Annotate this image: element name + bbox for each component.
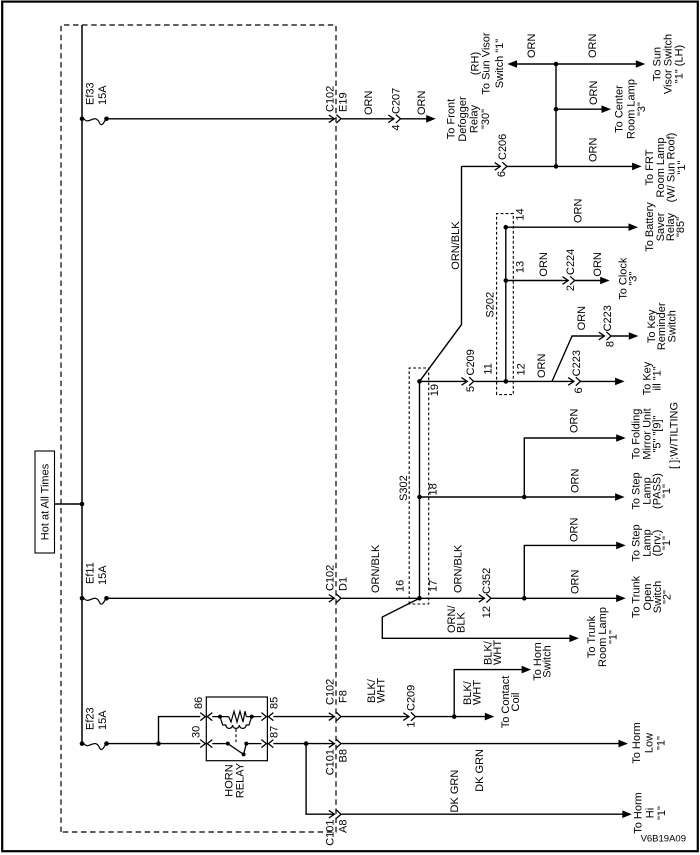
wire: BLK/WHT to contact coil: [416, 716, 487, 718]
relay actuator dashed link: [235, 729, 237, 742]
svg-text:6: 6: [573, 387, 585, 393]
svg-text:12: 12: [516, 363, 528, 375]
arrow to Contact Coil: [485, 713, 495, 721]
label To Horm Hi 1: [633, 792, 669, 834]
svg-text:Ef23: Ef23: [85, 707, 97, 730]
svg-text:"30": "30": [480, 109, 492, 129]
svg-text:"5" "[9]": "5" "[9]": [652, 415, 664, 452]
junction: center room lamp tap: [554, 107, 559, 112]
svg-text:ORN: ORN: [576, 306, 588, 331]
svg-text:"2": "2": [662, 590, 674, 604]
label To Horm Low 1: [631, 722, 668, 764]
connector C223 pin 8: [599, 332, 611, 340]
svg-text:6: 6: [496, 171, 508, 177]
junction: S302 pin 16/17: [417, 596, 422, 601]
wire: DK GRN to horn low: [342, 743, 621, 745]
svg-text:Coil: Coil: [510, 693, 522, 712]
fuse Ef23 15A: [80, 741, 109, 749]
svg-text:S202: S202: [485, 292, 497, 318]
svg-text:C102: C102: [325, 86, 337, 112]
wire: Ef11 to C102 D1: [107, 597, 330, 599]
svg-text:Hot at All Times: Hot at All Times: [40, 463, 52, 540]
label To FRT Room Lamp: [644, 133, 688, 203]
svg-text:ORN: ORN: [569, 409, 581, 434]
arrow to FRT Room Lamp: [632, 163, 642, 171]
relay switch contact: [212, 744, 261, 755]
wire: ORN to C224: [506, 280, 563, 282]
svg-text:15A: 15A: [97, 565, 109, 585]
wire: to C101 A8: [306, 744, 329, 815]
label To Contact Coil: [500, 676, 522, 729]
wire: ORN sun visor RH-LH: [514, 63, 637, 65]
junction: S202 pin 12: [504, 379, 509, 384]
wire: ORN to trunk open switch: [491, 597, 617, 599]
connector C207 pin 4: [388, 115, 400, 123]
label To Battery Saver Relay 85: [644, 202, 687, 252]
svg-text:86: 86: [193, 697, 205, 709]
connector C102 pin F8: [329, 712, 341, 720]
arrow to Front Defogger Relay: [426, 115, 436, 123]
svg-text:19: 19: [429, 384, 441, 396]
svg-text:ORN: ORN: [536, 354, 548, 379]
wire: ORN to FRT room lamp: [507, 165, 634, 167]
relay terminal 30: [200, 740, 212, 748]
svg-text:ORN/BLK: ORN/BLK: [450, 221, 462, 270]
label To Step Lamp PASS 1: [631, 472, 674, 509]
svg-text:"1" (LH): "1" (LH): [674, 45, 686, 83]
svg-text:E19: E19: [338, 92, 350, 112]
svg-text:Switch: Switch: [542, 645, 554, 677]
wire: ORN to step lamp Drv: [524, 545, 617, 598]
junction: relay coil tap: [156, 741, 161, 746]
wire: ORN to clock: [575, 280, 602, 282]
junction: horn switch tap: [452, 714, 457, 719]
splice S202 dashed box: [497, 214, 514, 395]
svg-text:C209: C209: [465, 349, 477, 375]
label To Sun Visor Switch RH: [470, 32, 507, 95]
svg-text:"85": "85": [675, 217, 687, 237]
arrow to Center Room Lamp: [602, 105, 612, 113]
svg-text:ORN: ORN: [538, 252, 550, 277]
svg-text:85: 85: [269, 697, 281, 709]
svg-text:"1": "1": [661, 536, 673, 550]
svg-text:18: 18: [428, 483, 440, 495]
splice S302 dashed box: [409, 368, 429, 604]
svg-text:Defogger: Defogger: [457, 96, 469, 142]
svg-text:C102: C102: [325, 679, 337, 705]
wire: to C206: [462, 165, 495, 167]
svg-text:17: 17: [428, 580, 440, 592]
svg-text:Ef33: Ef33: [85, 82, 97, 105]
svg-text:C209: C209: [406, 685, 418, 711]
connector C101 pin A8: [329, 810, 341, 818]
svg-text:"1": "1": [608, 630, 620, 644]
junction: S202 pin 13: [504, 278, 509, 283]
svg-text:WHT: WHT: [492, 640, 504, 665]
wire: ORN to folding mirror unit: [524, 438, 617, 497]
svg-text:ORN: ORN: [526, 34, 538, 59]
connector C206 pin 6: [495, 162, 507, 170]
svg-text:[ ]:W/TILTING: [ ]:W/TILTING: [669, 402, 681, 469]
svg-text:2: 2: [565, 285, 577, 291]
junction: S302 pin 18: [417, 495, 422, 500]
connector C209 pin 5/11: [462, 377, 474, 385]
svg-text:ORN: ORN: [592, 252, 604, 277]
wire: ORN to C223 pin 6: [506, 380, 569, 382]
arrow to Trunk Open Switch: [616, 595, 626, 603]
svg-text:16: 16: [395, 580, 407, 592]
svg-text:B8: B8: [338, 749, 350, 762]
switch pivot: [242, 752, 246, 756]
svg-text:1: 1: [406, 722, 418, 728]
switch fixed contact: [226, 742, 230, 746]
connector C102 pin E19: [329, 115, 341, 123]
wire: ORN to key reminder via C223 pin 8: [552, 336, 599, 381]
wire: to horn relay 86: [159, 717, 201, 744]
svg-text:ORN: ORN: [570, 469, 582, 494]
svg-text:ORN: ORN: [363, 91, 375, 116]
label To Sun Visor Switch LH: [652, 34, 686, 94]
svg-text:C352: C352: [481, 568, 493, 594]
wire: ORN to battery saver relay: [506, 226, 630, 228]
svg-text:Hi: Hi: [645, 808, 657, 818]
svg-text:DK GRN: DK GRN: [474, 749, 486, 792]
fuse Ef11 15A: [80, 596, 109, 604]
junction: stem on bus: [80, 502, 85, 507]
svg-text:14: 14: [515, 208, 527, 220]
svg-text:C102: C102: [325, 565, 337, 591]
svg-text:WHT: WHT: [472, 680, 484, 705]
svg-text:Relay: Relay: [469, 104, 481, 133]
svg-text:BLK: BLK: [455, 612, 467, 633]
svg-text:ORN: ORN: [588, 81, 600, 106]
svg-text:87: 87: [269, 726, 281, 738]
junction: S302 pin 19: [417, 379, 422, 384]
wire: to key reminder switch: [611, 335, 630, 337]
wire: relay 87 to C101 B8: [273, 743, 329, 745]
fuse block dashed enclosure: [61, 25, 336, 832]
label To Horn Switch: [532, 642, 554, 681]
svg-text:"1": "1": [656, 736, 668, 750]
svg-text:To Horm: To Horm: [633, 792, 645, 834]
connector C223 pin 6: [568, 377, 580, 385]
svg-text:ORN/BLK: ORN/BLK: [370, 544, 382, 593]
svg-text:To Trunk: To Trunk: [631, 575, 643, 618]
svg-text:To Sun Visor: To Sun Visor: [481, 32, 493, 95]
label To Clock 3: [618, 257, 640, 300]
wire: ORN to center room lamp: [556, 108, 603, 110]
connector C224 pin 2: [563, 276, 575, 284]
arrow to Horn Hi: [622, 810, 632, 818]
svg-text:C223: C223: [571, 350, 583, 376]
wire: S202 splice bus: [505, 227, 507, 381]
connector C102 pin D1: [329, 594, 341, 602]
svg-text:ORN: ORN: [569, 518, 581, 543]
wire: ORN/BLK to trunk room lamp: [382, 598, 570, 638]
svg-text:To Horm: To Horm: [631, 722, 643, 764]
wire: Ef33 to C102 E19: [107, 118, 330, 120]
svg-text:ORN: ORN: [416, 91, 428, 116]
connector C352 pin 12: [479, 594, 491, 602]
label To Trunk Open Switch 2: [631, 575, 674, 618]
connector C209 pin 1: [403, 712, 415, 720]
junction: step lamp Drv tap: [522, 596, 527, 601]
svg-text:"1": "1": [656, 806, 668, 820]
svg-text:C223: C223: [602, 305, 614, 331]
svg-text:30: 30: [191, 726, 203, 738]
label box Hot at All Times: [35, 451, 55, 553]
svg-text:DK GRN: DK GRN: [449, 770, 461, 813]
svg-text:ill "1": ill "1": [652, 366, 664, 390]
label To Key ill 1: [642, 361, 664, 395]
svg-text:Ef11: Ef11: [85, 562, 97, 584]
relay coil: [212, 711, 261, 728]
switch output contact: [244, 742, 248, 746]
label To Step Lamp Drv 1: [631, 524, 674, 561]
junction: coil top: [218, 715, 222, 719]
relay terminal 87: [261, 740, 273, 748]
svg-text:4: 4: [391, 125, 403, 131]
wire: ORN to C207: [342, 118, 389, 120]
label To Folding Mirror Unit: [631, 408, 664, 459]
svg-text:13: 13: [515, 261, 527, 273]
relay terminal 85: [261, 713, 273, 721]
wire: relay 85 to C102 F8: [273, 716, 329, 718]
junction: S202 pin 14: [504, 225, 509, 230]
wire: feed to sun visor branch: [555, 64, 557, 166]
wire: ORN to front defogger relay: [401, 118, 427, 120]
svg-text:C101: C101: [325, 749, 337, 775]
svg-text:ORN: ORN: [570, 570, 582, 595]
junction: sun visor wire: [554, 62, 559, 67]
svg-text:C101: C101: [325, 820, 337, 846]
svg-text:ORN: ORN: [573, 199, 585, 224]
svg-text:5: 5: [465, 386, 477, 392]
svg-text:A8: A8: [338, 820, 350, 833]
fuse Ef33 15A: [80, 117, 109, 125]
svg-text:Switch: Switch: [666, 310, 678, 342]
relay terminal 86: [200, 713, 212, 721]
svg-text:C206: C206: [497, 134, 509, 160]
label To Center Room Lamp 3: [614, 79, 649, 139]
wire: S302 splice bus: [419, 381, 421, 598]
svg-text:ORN: ORN: [588, 138, 600, 163]
svg-text:F8: F8: [338, 690, 350, 703]
arrow to Folding Mirror Unit: [616, 434, 626, 442]
junction: folding mirror tap: [522, 495, 527, 500]
arrow to Sun Visor Switch RH: [508, 60, 518, 68]
wire: ORN/BLK from splice 19 to roof feed: [420, 166, 462, 381]
wire: BLK/WHT to horn switch: [454, 670, 523, 717]
arrow to Step Lamp PASS: [615, 493, 625, 501]
svg-text:WHT: WHT: [376, 678, 388, 703]
svg-text:V6B19A09: V6B19A09: [641, 834, 686, 845]
svg-text:11: 11: [483, 363, 495, 374]
junction: sun visor feed tap: [554, 164, 559, 169]
junction: coil bottom: [250, 715, 254, 719]
svg-text:C207: C207: [391, 88, 403, 114]
relay HORN RELAY box: [206, 697, 267, 761]
wire: C209 to S202 pin 12: [474, 380, 506, 382]
svg-text:C224: C224: [565, 249, 577, 275]
wire: BLK/WHT to C209: [342, 716, 404, 718]
arrow to Step Lamp Drv: [616, 542, 626, 550]
wire: to key illumination: [580, 380, 616, 382]
wire: Hot at All Times stem to bus: [55, 503, 83, 505]
arrow to Trunk Room Lamp: [569, 635, 579, 643]
svg-text:"1": "1": [676, 160, 688, 174]
svg-text:"3": "3": [636, 102, 648, 116]
svg-text:D1: D1: [338, 577, 350, 591]
arrow to Horn Low: [619, 740, 629, 748]
label To Trunk Room Lamp 1: [586, 607, 620, 667]
wire: ORN/BLK to splice S302 and C352: [342, 597, 479, 599]
arrow to Key Reminder Switch: [629, 332, 639, 340]
svg-text:Switch "1": Switch "1": [494, 39, 506, 88]
wire: DK GRN to horn hi: [342, 813, 624, 815]
connector C101 pin B8: [329, 739, 341, 747]
arrow to Battery Saver Relay: [629, 223, 639, 231]
svg-text:8: 8: [605, 341, 617, 347]
wire: Hot at All Times bus: [81, 25, 83, 744]
junction: horn hi tap: [304, 741, 309, 746]
label To Front Defogger Relay 30: [446, 96, 493, 142]
svg-text:S302: S302: [398, 475, 410, 501]
svg-text:ORN: ORN: [587, 34, 599, 59]
svg-text:12: 12: [481, 606, 493, 618]
svg-text:To Center: To Center: [614, 85, 626, 133]
svg-text:Low: Low: [644, 733, 656, 753]
svg-text:"3": "3": [628, 272, 640, 286]
svg-text:"1": "1": [661, 484, 673, 498]
arrow to Key ill: [615, 378, 625, 386]
arrow to Sun Visor Switch LH: [636, 60, 646, 68]
svg-text:To Front: To Front: [446, 99, 458, 139]
arrow to Horn Switch: [522, 666, 532, 674]
arrow to Clock: [600, 277, 610, 285]
wire: splice 19 to C209: [420, 380, 462, 382]
wire: ORN to step lamp PASS: [420, 496, 617, 498]
svg-text:ORN/BLK: ORN/BLK: [452, 544, 464, 593]
svg-text:15A: 15A: [97, 85, 109, 105]
label To Key Reminder Switch: [646, 302, 679, 350]
svg-text:RELAY: RELAY: [235, 762, 247, 798]
wire: Ef23 to horn relay 30: [107, 743, 201, 745]
svg-text:15A: 15A: [97, 710, 109, 730]
